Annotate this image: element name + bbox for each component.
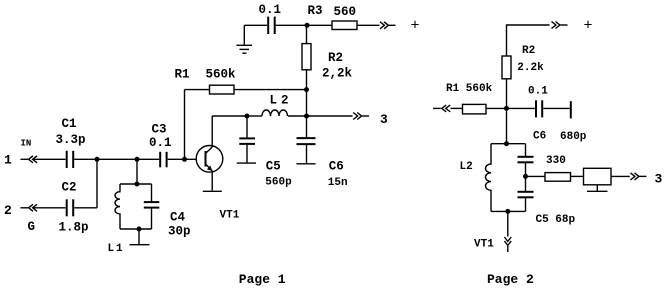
inductor L2 page2 [486,144,492,212]
wire cap 0.1 to end bar [543,107,570,109]
port plus connector symbol [380,22,396,29]
value 1.8p [59,221,89,235]
wire node H to output 3 [307,115,353,117]
svg-text:680p: 680p [560,131,587,143]
node F tank bottom junction [137,227,142,232]
wire node I to R3 [307,24,332,26]
svg-text:G: G [28,220,36,234]
wire riser C2 up to node A [96,159,98,208]
capacitor 0.1 page2 [536,100,542,117]
label VT1 [220,209,240,221]
wire R1 right lead to node D [234,89,307,91]
svg-text:3: 3 [655,172,663,187]
wire node G down to C5 [246,116,248,138]
wire port1 to C1 [34,158,66,160]
node E tank top junction [135,182,140,187]
wire filter box to port 3 page2 [611,175,630,177]
wire ground to bypass cap [244,24,267,26]
label R2 page2 [522,45,535,57]
node J junction [504,106,509,111]
node G junction [245,114,250,119]
capacitor C1 [67,151,74,168]
svg-text:1: 1 [4,152,12,167]
label Page 2 [487,272,534,287]
net label G [28,220,36,234]
wire port2 to C2 [34,207,66,209]
label R1 [175,68,190,82]
ground bar under tank [130,244,150,246]
wire node J to cap 0.1 page2 [507,107,535,109]
value 0.1 [149,136,172,150]
capacitor C5 bottom lead [246,144,248,162]
transistor VT1 [196,146,223,173]
svg-text:330: 330 [546,155,566,167]
wire tank top rail [120,183,152,185]
wire R1 left lead [185,89,210,91]
wire port to R1 page2 [451,107,463,109]
capacitor C6 bottom lead [306,145,308,163]
wire tank bottom rail page2 [491,210,526,212]
svg-text:3: 3 [380,112,388,127]
terminal bar under C6 [297,163,316,165]
node H junction [304,114,309,119]
plus terminal label page2 [584,17,593,34]
value 30p [168,225,191,239]
bypass capacitor 0.1 [268,17,275,34]
wire C2 to riser [74,207,97,209]
node B junction [135,157,140,162]
inductor L2 [262,110,288,116]
svg-text:C4: C4 [170,211,186,225]
svg-text:C2: C2 [62,181,77,195]
svg-text:2: 2 [4,203,12,218]
value 2.2k page2 [517,62,544,74]
svg-text:R1: R1 [175,68,190,82]
label L 1 [108,243,124,255]
terminal bar page2 [570,101,572,118]
capacitor C2 [67,199,74,216]
svg-text:560p: 560p [265,176,292,188]
svg-text:0.1: 0.1 [149,136,172,150]
svg-text:R1 560k: R1 560k [446,83,493,95]
port plus page2 connector symbol [552,22,568,29]
value 330 [546,155,566,167]
svg-text:3.3p: 3.3p [56,133,86,147]
wire node L to resistor 330 [526,175,546,177]
wire node B down to tank [136,159,138,184]
port 2 connector symbol [21,204,38,211]
svg-text:0.1: 0.1 [528,86,548,98]
svg-text:2.2k: 2.2k [517,62,544,74]
plus terminal label [411,18,420,35]
wire L2 to node H [288,115,307,117]
svg-text:1.8p: 1.8p [59,221,89,235]
svg-text:15n: 15n [328,177,348,189]
svg-text:560k: 560k [206,68,237,82]
node K tank top junction page2 [504,141,509,146]
label C4 [170,211,186,225]
capacitor C4 [144,202,160,208]
svg-text:L: L [108,243,115,255]
capacitor C4 bottom lead [151,208,153,229]
value 15n [328,177,348,189]
port 3 connector symbol [353,113,369,120]
wire node J down to tank page2 [506,108,508,143]
capacitor C6 [297,138,316,144]
wire collector corner to node G [212,115,247,117]
resistor R1 page2 [463,104,487,114]
resistor R3 [332,21,357,30]
capacitor C5 page2 [518,192,534,198]
wire node G to L2 [247,115,262,117]
wire tank bottom rail [120,228,152,230]
svg-text:IN: IN [21,139,32,149]
filter box component [584,168,612,185]
ground stub filter box [596,185,598,191]
value C5 68p page2 [536,214,576,226]
resistor 330 [545,173,571,182]
label C3 [152,122,167,136]
svg-text:L2: L2 [460,161,473,173]
wire R2 bottom to node D [306,70,308,90]
label VT1 page2 [474,239,494,251]
svg-text:R2: R2 [328,51,343,65]
wire collector up [211,116,213,147]
label R2 [328,51,343,65]
value 0.1 page2 [528,86,548,98]
label C2 [62,181,77,195]
resistor R1 [210,85,235,94]
ground top-left [237,25,253,53]
svg-text:R3: R3 [308,4,323,18]
wire R2 down to node J [506,79,508,109]
value 2,2k [322,66,353,80]
wire node A to node B [97,158,137,160]
svg-text:C1: C1 [62,117,77,131]
label C6 page2 [533,131,546,143]
value 0.1 (bypass) [259,3,282,17]
svg-text:C6: C6 [329,160,344,174]
wire tank top rail page2 [491,143,526,145]
svg-text:Page 2: Page 2 [487,272,534,287]
port VT1 connector symbol (down) [504,237,511,252]
node I junction [305,23,310,28]
wire node M down to VT1 port [507,211,509,236]
value 560k [206,68,237,82]
wire bypass cap to node I [276,24,307,26]
svg-text:C5: C5 [266,159,281,173]
wire node H down to C6 [306,116,308,138]
capacitor C3 [160,152,166,168]
resistor R2 [302,44,311,70]
svg-text:VT1: VT1 [474,239,494,251]
value 560p [265,176,292,188]
label C5 [266,159,281,173]
label R1 560k page2 [446,83,493,95]
label L2 page2 [460,161,473,173]
terminal bar under C5 [237,162,256,164]
wire node D to node H riser [306,90,308,116]
wire emitter down [211,171,213,191]
ground stub under tank [138,229,140,244]
svg-text:L: L [270,93,278,107]
wire node L to C5 page2 [525,176,527,191]
net label IN [21,139,32,149]
svg-text:R2: R2 [522,45,535,57]
node D junction [304,87,309,92]
label Page 1 [239,272,286,287]
svg-text:C3: C3 [152,122,167,136]
svg-text:2: 2 [281,93,289,107]
wire R3 to port plus [357,24,380,26]
wire C1 to node A [74,158,97,160]
wire 330 to filter box [571,175,584,177]
value 680p page2 [560,131,587,143]
value 560 [334,5,357,19]
wire R1 to node J [486,107,507,109]
capacitor C5 bottom lead page2 [525,198,527,212]
svg-text:560: 560 [334,5,357,19]
wire C3 to node C [168,158,185,160]
ground bar filter box [587,190,608,192]
capacitor C6 page2 [518,157,534,163]
inductor L1 [115,184,120,229]
wire node B to C3 [137,158,159,160]
ground bar emitter [203,190,222,192]
svg-text:+: + [411,18,420,35]
wire C6 to node L page2 [525,163,527,177]
svg-text:30p: 30p [168,225,191,239]
svg-text:0.1: 0.1 [259,3,282,17]
wire top rail page2 [507,25,550,56]
svg-text:1: 1 [116,243,123,255]
label C6 [329,160,344,174]
node C junction [182,157,187,162]
port left page2 connector symbol [433,105,450,112]
label C1 [62,117,77,131]
node M tank bottom junction page2 [505,209,510,214]
svg-text:+: + [584,17,593,34]
svg-text:VT1: VT1 [220,209,240,221]
capacitor C6 page2 top lead [525,144,527,157]
terminal 1 pin number [4,152,12,167]
terminal 3 pin number [380,112,388,127]
svg-text:C5 68p: C5 68p [536,214,576,226]
terminal 2 pin number [4,203,12,218]
capacitor C4 top lead [151,184,153,202]
wire riser node C up to R1 [184,90,186,160]
resistor R2 page2 [502,56,511,79]
capacitor C5 [239,138,255,144]
label R3 [308,4,323,18]
port 3 page2 connector symbol [631,173,647,180]
node L junction page2 [523,174,528,179]
svg-text:C6: C6 [533,131,546,143]
port 1 connector symbol [21,156,38,163]
value 3.3p [56,133,86,147]
wire node C to transistor base [185,158,197,160]
wire node I down to R2 [306,25,308,43]
node A junction [95,157,100,162]
svg-text:2,2k: 2,2k [322,66,353,80]
svg-text:Page 1: Page 1 [239,272,286,287]
label L 2 [270,93,289,107]
terminal 3 pin number page2 [655,172,663,187]
